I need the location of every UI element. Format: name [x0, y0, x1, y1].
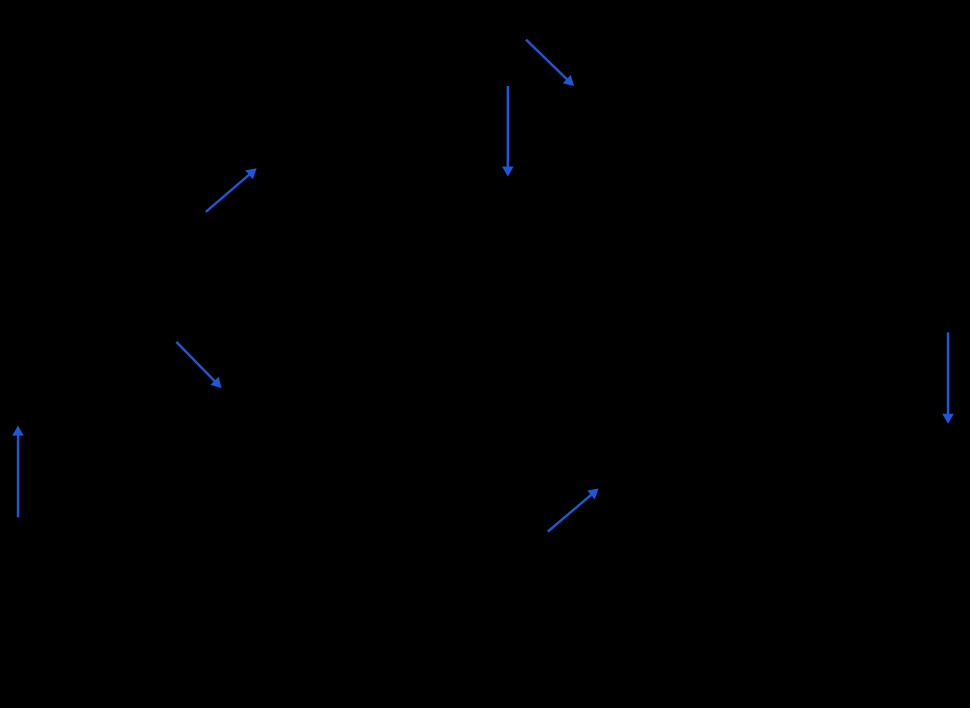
arrow A5 far-left vertical up	[12, 426, 24, 518]
arrow A3 upper-left diagonal up-right	[206, 168, 257, 212]
arrow A4 mid-left diagonal down-right	[176, 342, 221, 388]
arrow A6 bottom-center diagonal up-right	[548, 489, 599, 532]
arrow A7 right vertical down	[942, 332, 954, 423]
arrow A1 top-center diagonal down-right	[526, 40, 574, 86]
arrow A2 upper-center vertical down	[502, 86, 514, 177]
